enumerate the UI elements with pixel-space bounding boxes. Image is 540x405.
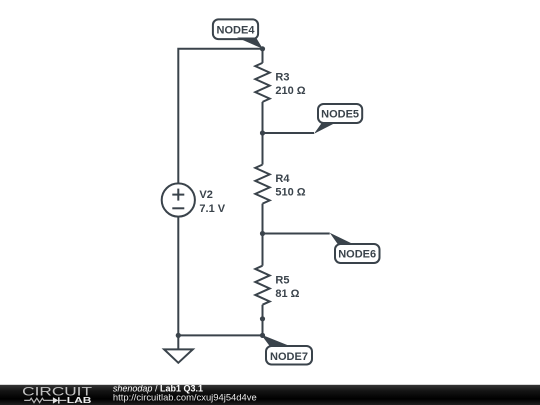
- svg-text:NODE4: NODE4: [217, 24, 256, 36]
- node NODE4 label: [213, 19, 263, 48]
- svg-text:NODE7: NODE7: [270, 351, 308, 363]
- svg-text:R4: R4: [275, 173, 290, 185]
- wire NODE6 stub: [263, 233, 330, 235]
- value label R4 510 Ω: [275, 173, 305, 199]
- junction dot at NODE6: [260, 231, 265, 236]
- resistor R4: [255, 165, 269, 204]
- wire right rail: R3 bottom to NODE5 junction: [262, 102, 264, 133]
- value label R3 210 Ω: [275, 72, 305, 98]
- node NODE6 label: [330, 233, 380, 263]
- wire right rail: R4 bottom to NODE6 junction: [262, 204, 264, 234]
- svg-text:R5: R5: [275, 274, 289, 286]
- svg-text:510 Ω: 510 Ω: [275, 187, 305, 199]
- svg-text:R3: R3: [275, 72, 289, 84]
- junction dot at NODE7: [260, 333, 265, 338]
- svg-text:NODE5: NODE5: [321, 109, 359, 121]
- footer title text: [113, 383, 257, 402]
- junction dot at NODE4: [260, 46, 265, 51]
- junction dot at NODE5: [260, 130, 265, 135]
- wire NODE5 stub: [263, 132, 315, 134]
- resistor R5: [255, 266, 269, 305]
- svg-text:V2: V2: [199, 189, 212, 201]
- wire bottom horizontal (ground junction to NODE7 junction): [178, 334, 262, 336]
- ground: [164, 335, 193, 362]
- node NODE5 label: [314, 104, 362, 134]
- resistor R3: [255, 63, 269, 102]
- svg-text:210 Ω: 210 Ω: [275, 85, 305, 97]
- svg-text:http://circuitlab.com/cxuj94j5: http://circuitlab.com/cxuj94j54d4ve: [113, 392, 257, 402]
- terminal dot above NODE7 junction: [260, 316, 265, 321]
- wire right rail: R5 bottom to NODE7 junction: [262, 305, 264, 336]
- node NODE7 label: [261, 335, 312, 365]
- value label R5 81 Ω: [275, 274, 299, 300]
- svg-text:7.1 V: 7.1 V: [199, 203, 225, 215]
- wire right rail: NODE6 junction to R5 top: [262, 234, 264, 266]
- footer bar: [0, 385, 540, 405]
- voltage source V2: [162, 183, 195, 216]
- svg-text:LAB: LAB: [67, 395, 92, 405]
- wire left rail lower segment (V2 negative terminal to bottom junction): [177, 217, 179, 336]
- wire right rail: NODE4 junction to R3 top: [262, 49, 264, 63]
- value label V2 7.1 V: [199, 189, 225, 215]
- svg-text:NODE6: NODE6: [338, 249, 376, 261]
- footer CircuitLab logo: [22, 385, 93, 405]
- wire right rail: NODE5 junction to R4 top: [262, 133, 264, 165]
- junction at ground: [176, 333, 181, 338]
- wire from NODE4 junction across the top and down the left rail to V2 positive terminal: [178, 49, 262, 184]
- svg-text:81 Ω: 81 Ω: [275, 288, 299, 300]
